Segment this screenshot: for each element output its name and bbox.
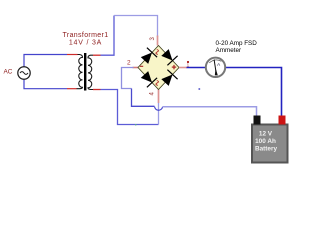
wire: bridge pin 2 to battery negative (with hop): [122, 68, 257, 117]
transformer secondary top pin stub: [93, 54, 101, 56]
battery positive terminal: [279, 116, 286, 125]
transformer T1 core: [84, 53, 86, 91]
transformer T1 secondary coil: [88, 55, 93, 89]
ammeter M1: [206, 58, 225, 77]
transformer secondary bottom pin stub: [93, 89, 101, 91]
svg-text:12 V: 12 V: [259, 131, 273, 138]
svg-text:Ammeter: Ammeter: [216, 47, 242, 54]
label Transformer1 14V / 3A: [63, 32, 109, 47]
transformer T1 primary coil: [77, 55, 83, 89]
svg-text:100 Ah: 100 Ah: [255, 138, 276, 145]
bridge rectifier BR1 body: [138, 46, 179, 90]
svg-text:4: 4: [150, 92, 156, 96]
diode D4 (bottom to right edge): [161, 70, 177, 86]
grid artifact dot: [135, 124, 136, 125]
battery BT1 body: [252, 125, 288, 163]
wire: ammeter to battery positive: [226, 68, 282, 117]
bridge pin 1 net dot: [187, 61, 189, 63]
bridge polarity mark plus (near pin 1): [172, 65, 176, 69]
wire: AC top to transformer primary top: [24, 55, 78, 67]
battery negative terminal: [254, 116, 261, 125]
svg-text:3: 3: [150, 37, 156, 41]
wire: bridge pin 4 down to junction: [158, 103, 160, 125]
wire: secondary top to bridge pin 3 (top loop): [101, 16, 158, 56]
svg-text:Transformer1: Transformer1: [63, 32, 109, 39]
wire: AC bottom to transformer primary bottom: [24, 79, 77, 88]
bridge pin 3 stub: [157, 36, 159, 46]
bridge AC mark top: [156, 50, 159, 55]
diode D2 (top to right edge): [161, 49, 177, 65]
bridge pin 1 stub: [179, 67, 187, 69]
wire: bridge pin 1 to ammeter: [187, 67, 206, 69]
AC source V1: [18, 67, 30, 79]
bridge pin 4 stub: [158, 90, 160, 104]
svg-text:AC: AC: [4, 69, 13, 76]
diode D1 (left to top edge): [141, 48, 157, 64]
wire: secondary bottom to bridge pin 4 node: [101, 90, 159, 125]
label 0-20 Amp FSD Ammeter: [216, 40, 258, 54]
bridge polarity mark minus (near pin 2): [140, 65, 143, 67]
stray node dot: [198, 88, 200, 90]
bridge AC mark bottom: [156, 81, 159, 86]
svg-text:0-20 Amp FSD: 0-20 Amp FSD: [216, 40, 258, 47]
battery text 12 V 100 Ah Battery: [255, 131, 277, 153]
svg-text:14V / 3A: 14V / 3A: [69, 40, 102, 47]
svg-text:Battery: Battery: [255, 146, 277, 153]
bridge pin 2 stub: [133, 67, 139, 69]
svg-text:2: 2: [127, 60, 131, 67]
diode D3 (left to bottom edge): [141, 71, 157, 87]
